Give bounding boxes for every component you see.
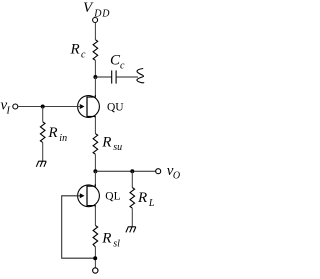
wire QL source to Rsl xyxy=(94,206,96,226)
terminal VDD xyxy=(93,18,98,23)
resistor R_c xyxy=(93,40,98,61)
label C_c xyxy=(110,53,125,72)
break symbol (continues elsewhere) xyxy=(137,69,144,83)
label R_c xyxy=(70,42,87,61)
wire node A to QU drain xyxy=(94,77,96,97)
node E junction xyxy=(93,256,97,260)
QL drain L xyxy=(87,184,95,186)
capacitor C_c xyxy=(111,70,113,83)
svg-text:sl: sl xyxy=(113,239,120,250)
wire node B to Rin xyxy=(42,107,44,122)
label QU xyxy=(107,102,124,114)
wire vI to QU gate xyxy=(18,106,81,108)
wire Rsl to node E xyxy=(94,247,96,268)
wire QL gate feedback xyxy=(62,196,95,258)
svg-text:V: V xyxy=(83,0,94,16)
svg-text:I: I xyxy=(6,106,11,117)
label QL xyxy=(105,190,120,202)
transistor QL xyxy=(78,184,100,207)
resistor R_in xyxy=(40,122,45,143)
svg-text:in: in xyxy=(59,133,67,144)
wire QU source to Rsu xyxy=(94,116,96,133)
QU circle xyxy=(78,96,100,118)
wire VDD to Rc xyxy=(94,23,96,40)
ground Rin xyxy=(36,161,46,167)
node C junction xyxy=(93,169,97,173)
transistor QU xyxy=(78,95,100,118)
QL source L xyxy=(87,206,95,208)
ground RL xyxy=(126,227,136,233)
label V_DD xyxy=(83,0,110,19)
label R_sl xyxy=(101,231,120,250)
svg-text:R: R xyxy=(47,125,57,141)
svg-text:R: R xyxy=(101,231,111,247)
QU drain L xyxy=(87,95,95,97)
wire RL to ground xyxy=(131,208,133,227)
svg-text:R: R xyxy=(101,134,111,150)
terminal bottom xyxy=(93,268,98,273)
resistor R_sl xyxy=(93,225,98,247)
node D junction xyxy=(130,169,134,173)
wire node C to QL drain xyxy=(94,171,96,186)
svg-text:QL: QL xyxy=(105,190,120,202)
QL channel bar xyxy=(86,186,88,206)
label v_I xyxy=(1,98,11,117)
svg-text:L: L xyxy=(148,198,155,209)
terminal v_I xyxy=(13,104,18,109)
svg-text:O: O xyxy=(173,171,180,182)
resistor R_su xyxy=(93,134,98,155)
svg-text:c: c xyxy=(120,60,125,71)
svg-text:c: c xyxy=(81,50,86,61)
resistor R_L xyxy=(130,188,135,209)
label v_O xyxy=(167,163,180,182)
node B junction xyxy=(41,105,45,109)
QU source L xyxy=(87,116,95,118)
terminal v_O xyxy=(156,169,161,174)
node A junction xyxy=(93,75,97,79)
wire node D to RL xyxy=(131,171,133,187)
wire Rsu to node C xyxy=(94,154,96,171)
label R_in xyxy=(47,125,67,144)
svg-text:R: R xyxy=(70,42,80,58)
wire Rc to node A xyxy=(94,60,96,77)
wire Cc to break xyxy=(116,76,138,78)
QU gate arrow xyxy=(80,104,85,109)
label R_L xyxy=(137,190,155,209)
svg-text:R: R xyxy=(137,190,147,206)
wire Rin to ground xyxy=(42,142,44,161)
QL gate arrow xyxy=(80,193,85,198)
label R_su xyxy=(101,134,122,153)
QL circle xyxy=(78,185,100,207)
svg-text:QU: QU xyxy=(107,102,124,114)
svg-text:su: su xyxy=(113,142,122,153)
QU channel bar xyxy=(86,97,88,117)
wire node A to Cc xyxy=(95,76,111,78)
wire node C to vO xyxy=(95,170,155,172)
